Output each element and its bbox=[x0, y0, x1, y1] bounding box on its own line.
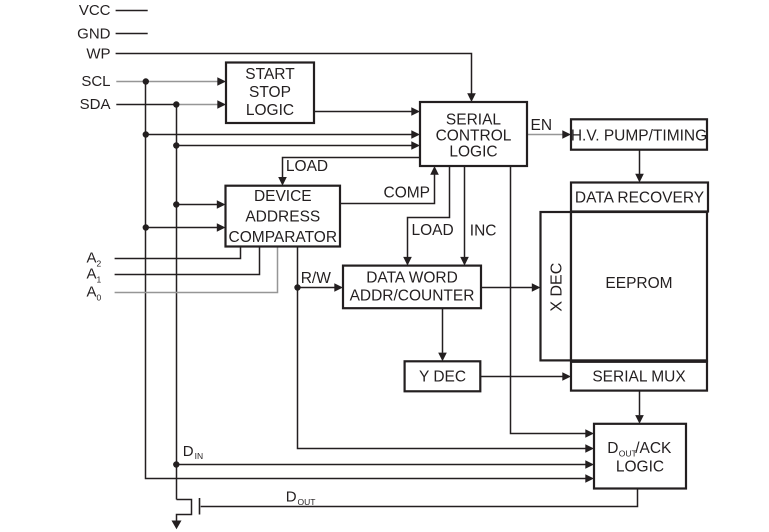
svg-text:H.V. PUMP/TIMING: H.V. PUMP/TIMING bbox=[571, 127, 707, 144]
block DATA WORD ADDR COUNTER bbox=[343, 266, 481, 309]
svg-text:DEVICE: DEVICE bbox=[254, 188, 312, 205]
svg-text:LOGIC: LOGIC bbox=[246, 102, 294, 119]
wire GND stub bbox=[116, 33, 148, 35]
svg-text:R/W: R/W bbox=[301, 270, 332, 287]
wire DOUT bbox=[201, 489, 638, 507]
svg-text:SERIAL: SERIAL bbox=[446, 112, 502, 129]
svg-text:0: 0 bbox=[97, 293, 102, 303]
wire serial mux to dout ack bbox=[639, 391, 641, 416]
wire LOAD to data word bbox=[408, 166, 450, 257]
svg-text:DATA RECOVERY: DATA RECOVERY bbox=[575, 189, 704, 206]
junction dot R/W bbox=[294, 284, 300, 290]
svg-text:LOGIC: LOGIC bbox=[449, 144, 497, 161]
svg-text:LOAD: LOAD bbox=[412, 222, 454, 239]
block SERIAL MUX bbox=[571, 362, 707, 391]
wire comparator A2 bbox=[115, 247, 241, 259]
svg-text:LOGIC: LOGIC bbox=[616, 458, 664, 475]
wire R/W bbox=[298, 287, 335, 289]
wire SCL bus vertical bbox=[146, 82, 586, 479]
wire data word to x dec bbox=[481, 287, 532, 289]
junction dot SDA bbox=[173, 101, 179, 107]
svg-text:A: A bbox=[87, 284, 97, 301]
wire COMP bbox=[340, 175, 435, 204]
svg-text:Y DEC: Y DEC bbox=[419, 369, 466, 386]
wire data word to y dec bbox=[442, 308, 444, 353]
wire y dec to serial mux bbox=[480, 376, 562, 378]
wire EN bbox=[527, 134, 563, 136]
transistor Q1 output bbox=[177, 500, 192, 522]
wire INC bbox=[464, 166, 466, 257]
svg-text:IN: IN bbox=[195, 451, 204, 461]
svg-text:D: D bbox=[183, 443, 194, 460]
svg-text:OUT: OUT bbox=[619, 448, 637, 458]
wire SDA bbox=[116, 104, 176, 106]
svg-text:D: D bbox=[607, 440, 618, 457]
ground arrow bbox=[172, 521, 182, 530]
block X DEC bbox=[541, 212, 572, 360]
svg-text:ADDR/COUNTER: ADDR/COUNTER bbox=[350, 287, 475, 304]
wire comparator A1 bbox=[115, 247, 260, 275]
junction dot SCL bbox=[143, 78, 149, 84]
svg-text:SCL: SCL bbox=[81, 73, 110, 90]
wire hv pump to data recovery bbox=[639, 150, 641, 174]
wire SDA to serial control bbox=[177, 145, 412, 147]
svg-text:X DEC: X DEC bbox=[549, 263, 566, 312]
svg-text:START: START bbox=[245, 66, 295, 83]
junction dot SDA-comparator bbox=[173, 201, 179, 207]
block SERIAL CONTROL LOGIC bbox=[420, 102, 527, 166]
junction dot DIN bbox=[173, 461, 179, 467]
wire comparator A0 bbox=[115, 247, 278, 293]
svg-text:LOAD: LOAD bbox=[286, 158, 328, 175]
junction dot SCL-SERIAL bbox=[143, 131, 149, 137]
svg-text:COMP: COMP bbox=[384, 185, 431, 202]
junction dot SDA-SERIAL bbox=[173, 142, 179, 148]
wire serial control to dout ack bbox=[511, 166, 586, 434]
svg-text:WP: WP bbox=[86, 45, 110, 62]
svg-text:STOP: STOP bbox=[249, 84, 291, 101]
svg-text:GND: GND bbox=[77, 25, 111, 42]
block EEPROM bbox=[571, 212, 707, 360]
wire DIN bbox=[177, 464, 586, 466]
block HV PUMP TIMING bbox=[571, 119, 707, 149]
svg-text:ADDRESS: ADDRESS bbox=[245, 209, 320, 226]
wire SCL to serial control bbox=[146, 134, 412, 136]
block START STOP LOGIC bbox=[226, 63, 314, 124]
block DATA RECOVERY bbox=[571, 183, 708, 212]
svg-text:COMPARATOR: COMPARATOR bbox=[229, 229, 338, 246]
svg-text:INC: INC bbox=[470, 222, 497, 239]
block DOUT ACK LOGIC bbox=[594, 424, 686, 489]
svg-text:D: D bbox=[286, 489, 297, 506]
svg-text:SDA: SDA bbox=[80, 96, 111, 113]
svg-text:CONTROL: CONTROL bbox=[436, 128, 512, 145]
svg-text:SERIAL MUX: SERIAL MUX bbox=[592, 369, 686, 386]
wire VCC stub bbox=[116, 10, 148, 12]
wire LOAD to comparator bbox=[283, 158, 421, 178]
wire start stop output bbox=[314, 111, 412, 113]
svg-text:/ACK: /ACK bbox=[635, 440, 672, 457]
svg-text:1: 1 bbox=[97, 275, 102, 285]
svg-text:DATA WORD: DATA WORD bbox=[366, 270, 458, 287]
block Y DEC bbox=[405, 361, 481, 391]
svg-text:EN: EN bbox=[531, 117, 553, 134]
junction dot SCL-comparator bbox=[143, 224, 149, 230]
wire R/W vertical to dout ack bbox=[298, 247, 586, 449]
svg-text:VCC: VCC bbox=[79, 2, 111, 19]
wire SDA to comparator bbox=[177, 204, 218, 206]
svg-text:A: A bbox=[87, 266, 97, 283]
wire SCL to comparator bbox=[146, 227, 218, 229]
wire WP bbox=[116, 54, 472, 94]
wire SCL bbox=[116, 81, 217, 83]
svg-text:EEPROM: EEPROM bbox=[605, 275, 672, 292]
svg-text:OUT: OUT bbox=[298, 497, 316, 507]
block DEVICE ADDRESS COMPARATOR bbox=[226, 186, 341, 247]
svg-text:2: 2 bbox=[97, 258, 102, 268]
wire SDA bus vertical bbox=[176, 105, 178, 500]
svg-text:A: A bbox=[87, 249, 97, 266]
